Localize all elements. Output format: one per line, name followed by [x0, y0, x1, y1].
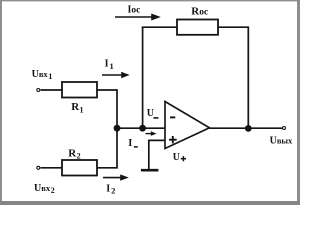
- svg-text:Iос: Iос: [128, 5, 141, 16]
- wire node A to inverting input: [117, 127, 166, 129]
- terminal output (Uвых): [283, 127, 286, 130]
- wire input2 to R2: [41, 167, 63, 169]
- wire feedback right vertical down to output node: [247, 26, 249, 128]
- svg-text:I1: I1: [105, 59, 114, 71]
- current arrow I1: [102, 72, 130, 78]
- resistor Roc: [177, 20, 218, 35]
- wire non-inverting down to ground: [148, 140, 150, 170]
- wire R2 to corner: [97, 167, 117, 169]
- label I-: [128, 138, 138, 149]
- wire Roc to right corner: [218, 26, 248, 28]
- wire feedback top left to Roc: [142, 26, 177, 28]
- wire output: [210, 127, 283, 129]
- svg-text:U: U: [173, 152, 180, 163]
- svg-text:U: U: [147, 108, 154, 119]
- op-amp minus input marking: [170, 116, 175, 118]
- terminal input 2 (Uвх2): [37, 166, 40, 169]
- op-amp U1: [165, 102, 210, 149]
- resistor R1: [62, 82, 97, 98]
- wire feedback left vertical: [142, 27, 144, 128]
- current arrow I2: [103, 174, 129, 180]
- output node junction dot: [245, 125, 252, 132]
- svg-text:Uвых: Uвых: [270, 136, 293, 147]
- current arrow Ioc: [115, 14, 161, 21]
- wire corner down to node A: [116, 89, 118, 128]
- label U- (inverting input voltage): [147, 108, 159, 119]
- terminal input 1 (Uвх1): [37, 89, 40, 92]
- svg-text:I: I: [128, 138, 132, 149]
- op-amp plus input marking: [169, 136, 177, 143]
- wire corner up to node A: [116, 128, 118, 168]
- ground: [141, 169, 159, 172]
- node A junction dot: [114, 125, 121, 132]
- svg-text:Rос: Rос: [191, 6, 208, 18]
- current arrow I- (input current): [146, 131, 157, 136]
- svg-text:I2: I2: [106, 183, 115, 195]
- wire R1 to corner: [97, 89, 117, 91]
- wire input1 to R1: [41, 89, 63, 91]
- resistor R2: [62, 160, 97, 176]
- node B junction dot (inverting input): [139, 125, 146, 132]
- wire non-inverting input: [149, 139, 166, 141]
- label U+ (non-inverting input voltage): [173, 152, 186, 163]
